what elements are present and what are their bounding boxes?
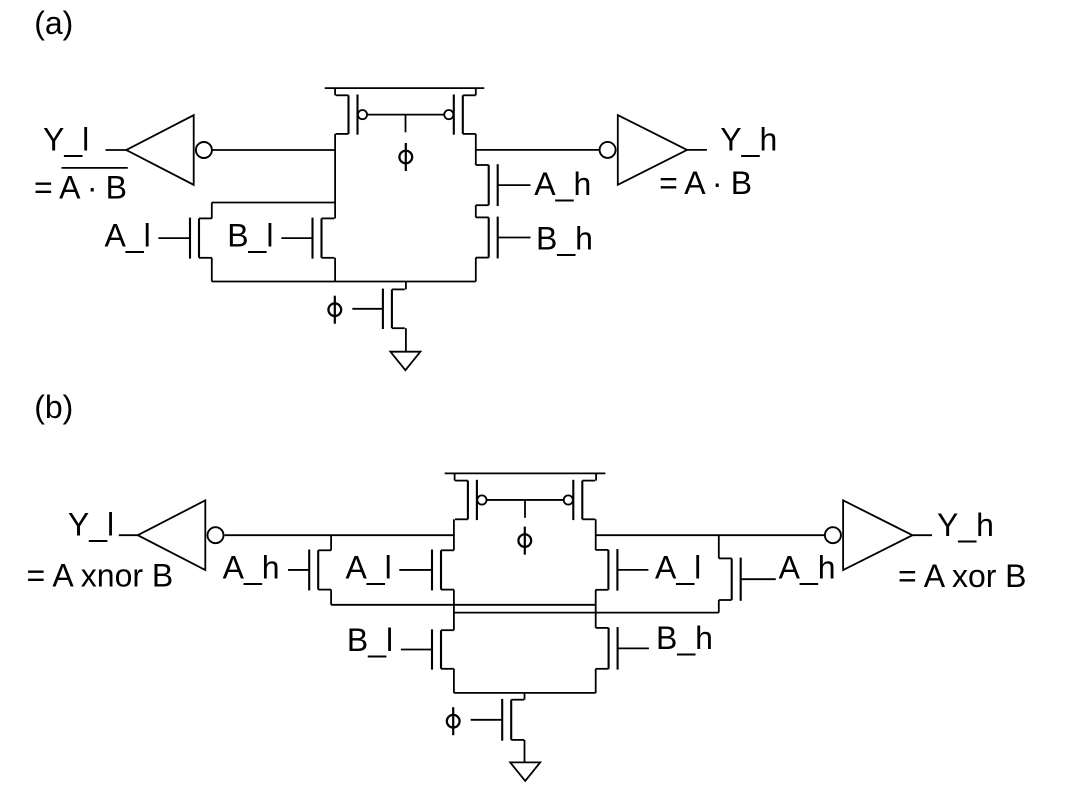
svg-text:A_h: A_h xyxy=(223,549,280,585)
wire: left output to inverter (a) xyxy=(212,149,335,151)
wire: NMOS pair drain rail (a) xyxy=(212,202,335,204)
svg-text:= A xnor B: = A xnor B xyxy=(27,557,174,593)
wire: VDD rail (b) xyxy=(445,472,606,474)
nmos: B_l (a) xyxy=(320,218,322,257)
ground symbol (a) xyxy=(390,352,420,371)
wire: VDD rail (a) xyxy=(325,87,485,89)
wire: left output to inverter (b) xyxy=(225,534,454,536)
wire: B_l source drop (b) xyxy=(453,669,455,693)
nmos: A_l (a) xyxy=(198,218,200,257)
wire: foot drain drop (b) xyxy=(524,693,526,700)
wire: Y_l inverter input stub (b) xyxy=(119,534,138,536)
svg-text:A_h: A_h xyxy=(534,166,591,202)
svg-text:= A xor B: = A xor B xyxy=(898,558,1027,594)
wire: foot source to ground (a) xyxy=(405,328,407,352)
ground symbol (b) xyxy=(510,762,540,781)
wire: right output to inverter (b) xyxy=(596,534,826,536)
nmos: A_l right (b) xyxy=(607,550,609,590)
wire: node Y_l_bar vertical (a) xyxy=(334,134,336,219)
wire: B_h source drop (b) xyxy=(595,669,597,693)
inverter: Y_h driver (a) xyxy=(618,115,687,185)
wire: A_h right drain drop (b) xyxy=(718,535,720,558)
svg-text:A_h: A_h xyxy=(779,549,836,585)
label: phi clock at PMOS gates (b) xyxy=(518,534,531,547)
wire: A_l right source to B_h drain (b) xyxy=(595,590,597,628)
wire: A_h left drain drop (b) xyxy=(330,535,332,550)
nmos: B_h (b) xyxy=(608,628,610,669)
nmos: A_l left (b) xyxy=(440,550,442,589)
wire: B_l source drop (a) xyxy=(334,258,336,282)
svg-text:Y_h: Y_h xyxy=(720,121,777,157)
svg-text:A_l: A_l xyxy=(346,549,392,585)
wire: right PMOS source stub to VDD (b) xyxy=(595,473,597,480)
nmos: A_h (a) xyxy=(488,165,490,205)
wire: A_h right source drop to node2 (b) xyxy=(718,600,720,613)
nmos: clock foot (a) xyxy=(391,289,393,328)
svg-text:= A · B: = A · B xyxy=(659,165,752,201)
wire: common source rail (a) xyxy=(212,281,476,283)
wire: foot drain drop (a) xyxy=(405,282,407,290)
wire: Y_l inverter input stub (a) xyxy=(106,149,127,151)
overline over A.B (a) xyxy=(62,167,128,169)
wire: left PMOS source stub to VDD (a) xyxy=(334,88,336,95)
wire: A_l drain drop (a) xyxy=(211,203,213,219)
wire: A_h left source drop (b) xyxy=(330,590,332,605)
wire: A_l left source to B_l drain (b) xyxy=(453,590,455,631)
inverter: Y_h driver (b) xyxy=(843,500,912,570)
wire: left PMOS source stub to VDD (b) xyxy=(454,473,456,480)
wire: B_h source drop (a) xyxy=(475,258,477,282)
wire: node2 rail A_l-left to A_h-right (b) xyxy=(454,612,719,614)
wire: right output to inverter (a) xyxy=(476,149,601,151)
svg-text:= A · B: = A · B xyxy=(34,169,127,205)
inverter: Y_l driver (a) xyxy=(126,115,194,185)
svg-text:B_l: B_l xyxy=(347,622,393,658)
svg-text:B_l: B_l xyxy=(227,218,273,254)
wire: A_h to B_h series link (a) xyxy=(475,205,477,217)
wire: node1 rail A_h-left to B_h (b) xyxy=(331,604,596,606)
wire: Y_h output stub (b) xyxy=(912,534,932,536)
wire: left PMOS drain drop (b) xyxy=(453,519,455,550)
svg-text:Y_l: Y_l xyxy=(43,121,89,157)
pmos: precharge left (b) xyxy=(467,481,469,520)
wire: node Y_h_bar vertical (a) xyxy=(475,134,477,165)
nmos: clock foot (b) xyxy=(510,700,512,740)
label: phi clock at foot (a) xyxy=(328,303,341,316)
wire: common source rail (b) xyxy=(454,692,596,694)
svg-text:Y_h: Y_h xyxy=(937,507,994,543)
label: phi clock at PMOS gates (a) xyxy=(399,151,412,164)
wire: foot source to ground (b) xyxy=(524,740,526,763)
nmos: B_h (a) xyxy=(488,217,490,257)
svg-text:(a): (a) xyxy=(34,5,73,41)
nmos: A_h right (b) xyxy=(731,558,733,600)
svg-text:B_h: B_h xyxy=(536,221,593,257)
nmos: A_h left (b) xyxy=(317,550,319,589)
inverter: Y_l driver (b) xyxy=(138,500,206,570)
svg-text:Y_l: Y_l xyxy=(68,507,114,543)
wire: phi tick from PMOS gates (a) xyxy=(405,115,407,132)
svg-text:(b): (b) xyxy=(34,389,73,425)
label: phi clock at foot (b) xyxy=(447,715,460,728)
pmos: precharge right (a) xyxy=(462,95,464,134)
nmos: B_l (b) xyxy=(440,630,442,669)
wire: right PMOS drain drop (b) xyxy=(595,519,597,550)
pmos: precharge left (a) xyxy=(347,95,349,134)
wire: right PMOS source stub to VDD (a) xyxy=(475,88,477,95)
wire: Y_h output stub (a) xyxy=(687,149,707,151)
pmos: precharge right (b) xyxy=(581,481,583,520)
svg-text:B_h: B_h xyxy=(656,620,713,656)
svg-text:A_l: A_l xyxy=(105,218,151,254)
svg-text:A_l: A_l xyxy=(655,549,701,585)
wire: phi tick from PMOS gates (b) xyxy=(524,500,526,518)
wire: A_l source drop (a) xyxy=(211,258,213,282)
